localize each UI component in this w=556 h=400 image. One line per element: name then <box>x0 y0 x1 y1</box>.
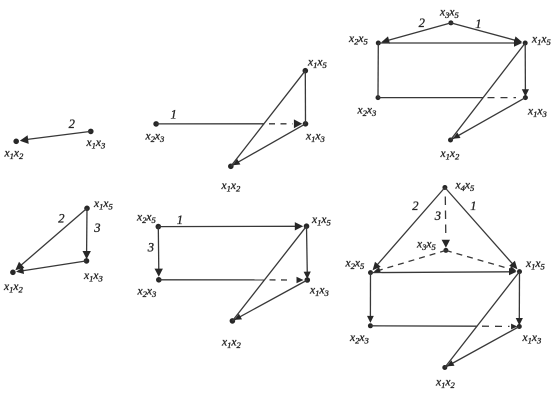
svg-text:x1x5: x1x5 <box>311 214 332 228</box>
arrow into x1x3 (graph 6) <box>511 324 517 330</box>
node x1x5 (graph 5) <box>304 223 310 229</box>
svg-text:x2x3: x2x3 <box>349 332 369 346</box>
node x2x3 (graph 6) <box>368 323 373 328</box>
wire x3x5 to x1x5 dashed, arrow at x1x5 (graph 6) <box>446 250 513 269</box>
svg-text:1: 1 <box>470 199 476 213</box>
svg-text:x1x3: x1x3 <box>527 106 547 120</box>
svg-text:x1x2: x1x2 <box>4 148 25 162</box>
node x1x3 (graph 6) <box>517 324 522 329</box>
arrow into x1x3 (graph 2) <box>294 119 302 128</box>
node x1x2 (graph 1) <box>13 139 19 145</box>
wire x1x5 to x1x3 vertical, arrow at x1x3 (graph 4) <box>86 208 88 252</box>
wire x3x5 to x2x5 dashed, arrow at x2x5 (graph 6) <box>377 250 446 271</box>
wire x2x5 to x2x3 vertical (graph 3) <box>377 43 379 98</box>
svg-text:x2x5: x2x5 <box>136 212 157 226</box>
node x1x2 (graph 6) <box>442 365 447 370</box>
wire x2x5 to x1x5 horizontal, arrow at x1x5 (graph 5) <box>158 225 297 227</box>
arrow into x1x3 (graph 5) <box>297 277 304 283</box>
wire x1x5 to x1x2, arrow at x1x2 (graph 4) <box>18 208 88 268</box>
node x1x2 (graph 4) <box>10 270 16 276</box>
node x3x5 (graph 6) <box>443 248 448 253</box>
node x1x3 (graph 3) <box>523 95 528 100</box>
wire x1x5 to x1x3 vertical (graph 2) <box>304 71 306 124</box>
wire x2x3 to x1x3 dashed hidden part (graph 3) <box>488 97 517 99</box>
wire x1x5 to x1x3 vertical, arrow at x1x3 (graph 6) <box>518 272 520 321</box>
wire x2x3 to x1x3 solid part (graph 6) <box>370 325 477 327</box>
wire x1x2 to x1x5 diagonal (graph 6) <box>445 272 520 368</box>
wire x1x2 to x1x5 diagonal (graph 3) <box>451 43 526 140</box>
wire x1x3 to x1x2, arrow at x1x2 (graph 3) <box>451 98 526 140</box>
wire x2x5 to x1x5 horizontal, arrow at x1x5 (graph 6) <box>371 271 512 274</box>
svg-text:x2x3: x2x3 <box>137 286 157 300</box>
wire x2x3 to x1x3 solid part (graph 5) <box>159 279 264 281</box>
node x1x3 (graph 4) <box>84 258 90 264</box>
svg-text:x1x2: x1x2 <box>221 337 242 351</box>
wire x4x5 to x2x5, arrow at x2x5 (graph 6) <box>375 188 445 269</box>
node x1x2 (graph 3) <box>448 138 453 143</box>
svg-text:1: 1 <box>475 17 481 31</box>
svg-text:x1x3: x1x3 <box>86 137 106 151</box>
svg-text:x1x3: x1x3 <box>305 131 325 145</box>
wire x1x3 to x1x2, arrow at x1x2 (graph 1) <box>22 131 91 140</box>
wire x2x3 to x1x3 solid part (graph 2) <box>156 123 264 125</box>
node x1x5 (graph 2) <box>303 68 309 74</box>
svg-text:3: 3 <box>147 241 154 255</box>
node x1x5 (graph 6) <box>517 269 522 274</box>
svg-text:x1x2: x1x2 <box>3 281 24 295</box>
svg-text:2: 2 <box>419 16 425 30</box>
node x1x3 (graph 2) <box>303 121 309 127</box>
wire x2x5 to x1x5 horizontal, arrow at x1x5 (graph 3) <box>378 42 516 44</box>
node x1x2 (graph 5) <box>230 318 236 324</box>
node x2x5 (graph 5) <box>156 224 162 230</box>
node x2x3 (graph 3) <box>376 95 381 100</box>
wire x2x3 to x1x3 dashed hidden part (graph 5) <box>270 279 290 281</box>
node x4x5 (graph 6) <box>442 185 447 190</box>
svg-text:x2x5: x2x5 <box>345 258 366 272</box>
node x3x5 (graph 3) <box>448 20 453 25</box>
wire x2x3 to x1x3 solid part (graph 3) <box>378 97 483 99</box>
wire x1x2 to x1x5 diagonal (graph 5) <box>232 226 306 321</box>
svg-text:x1x5: x1x5 <box>531 34 552 48</box>
svg-text:x4x5: x4x5 <box>455 180 476 194</box>
wire x2x3 to x1x3 dashed hidden part (graph 6) <box>482 325 510 327</box>
svg-text:1: 1 <box>171 108 177 122</box>
svg-text:x1x3: x1x3 <box>309 285 329 299</box>
wire x1x3 to x1x2, arrow at x1x2 (graph 4) <box>18 261 87 272</box>
svg-text:1: 1 <box>177 213 183 227</box>
svg-text:x3x5: x3x5 <box>416 239 437 253</box>
svg-text:x1x5: x1x5 <box>307 57 328 71</box>
wire x1x3 to x1x2, arrow at x1x2 (graph 5) <box>232 280 307 321</box>
svg-text:3: 3 <box>93 221 100 235</box>
svg-text:x3x5: x3x5 <box>439 7 460 21</box>
svg-text:x1x2: x1x2 <box>221 180 242 194</box>
wire x4x5 to x3x5 dashed vertical, arrow at x3x5 (graph 6) <box>444 197 447 237</box>
svg-text:x1x5: x1x5 <box>93 198 114 212</box>
wire x4x5 to x1x5, arrow at x1x5 (graph 6) <box>445 188 516 268</box>
svg-text:2: 2 <box>412 199 418 213</box>
wire x1x3 to x1x2, arrow at x1x2 (graph 6) <box>445 327 520 368</box>
svg-text:x2x3: x2x3 <box>145 131 165 145</box>
node x2x3 (graph 5) <box>156 277 162 283</box>
svg-text:x1x3: x1x3 <box>522 332 542 346</box>
svg-text:x1x3: x1x3 <box>83 270 103 284</box>
node x2x3 (graph 2) <box>153 121 159 127</box>
node x1x5 (graph 4) <box>84 206 90 212</box>
node x1x5 (graph 3) <box>523 41 528 46</box>
node x2x5 (graph 6) <box>368 270 373 275</box>
svg-text:2: 2 <box>58 212 64 226</box>
svg-text:x2x3: x2x3 <box>357 105 377 119</box>
wire x2x5 to x2x3 vertical, arrow at x2x3 (graph 6) <box>369 273 371 320</box>
wire x2x3 to x1x3 dashed hidden part (graph 2) <box>269 123 293 125</box>
wire x1x3 to x1x2, arrow at x1x2 (graph 2) <box>231 124 306 167</box>
wire x3x5 to x1x5, arrow at x1x5 (graph 3) <box>451 23 521 42</box>
node x1x2 (graph 2) <box>228 164 234 170</box>
node x1x3 (graph 1) <box>88 129 94 135</box>
svg-text:x2x5: x2x5 <box>348 33 369 47</box>
node x2x5 (graph 3) <box>376 41 381 46</box>
wire x1x5 to x1x3 vertical, arrow at x1x3 (graph 3) <box>524 43 526 92</box>
wire x1x2 to x1x5 diagonal (graph 2) <box>231 71 305 167</box>
wire x3x5 to x2x5, arrow at x2x5 (graph 3) <box>383 23 451 42</box>
svg-text:x1x5: x1x5 <box>525 258 546 272</box>
svg-text:x1x2: x1x2 <box>440 148 461 162</box>
wire x1x5 to x1x3 vertical, arrow at x1x3 (graph 5) <box>306 226 309 274</box>
wire x2x5 to x2x3 vertical, arrow at x2x3 (graph 5) <box>157 227 160 271</box>
node x1x3 (graph 5) <box>305 277 311 283</box>
svg-text:x1x2: x1x2 <box>435 377 456 391</box>
svg-text:3: 3 <box>434 209 441 223</box>
svg-text:2: 2 <box>69 117 75 131</box>
